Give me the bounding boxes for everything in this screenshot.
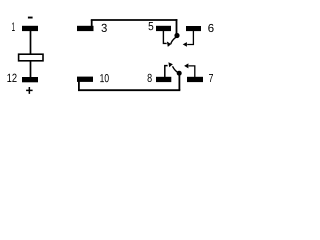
armature curve pole2 bbox=[173, 66, 180, 73]
pin 7 contact stub bbox=[189, 66, 195, 77]
wire bottom corner riser bbox=[178, 73, 180, 90]
node top common junction bbox=[174, 33, 179, 38]
wire pin 10 drop bbox=[78, 82, 80, 91]
pin 10 label bbox=[100, 74, 109, 82]
wire coil to pin12 bbox=[30, 61, 32, 77]
armature curve pole1 bbox=[171, 37, 176, 44]
pin 3 label bbox=[102, 24, 107, 32]
pin 1 label bbox=[12, 23, 15, 32]
pin 12 terminal pad bbox=[22, 77, 38, 82]
pin 8 label bbox=[148, 74, 152, 82]
wire top common rail bbox=[91, 19, 178, 21]
pin 8 terminal pad bbox=[156, 77, 171, 82]
wire pin1 to coil bbox=[30, 31, 32, 54]
pin 5 terminal pad bbox=[156, 26, 171, 31]
contact arrow pole2 NC bbox=[168, 62, 173, 67]
pin 12 label bbox=[7, 74, 16, 82]
pin 7 terminal pad bbox=[187, 77, 203, 82]
pin 6 terminal pad bbox=[186, 26, 201, 31]
coil polarity minus bbox=[28, 17, 33, 19]
pin 8 contact stub bbox=[165, 66, 168, 77]
pin 5 contact stub bbox=[163, 31, 166, 43]
contact arrow pole1 NC bbox=[167, 42, 171, 47]
node bottom common junction bbox=[177, 71, 182, 76]
pin 5 label bbox=[149, 22, 154, 30]
contact arrow pole1 NO bbox=[183, 42, 187, 47]
pin 7 label bbox=[209, 74, 213, 82]
pin 6 contact stub bbox=[187, 31, 193, 45]
wire top corner drop bbox=[176, 19, 178, 35]
coil L1 bbox=[19, 54, 43, 61]
wire pin 3 riser bbox=[91, 20, 93, 27]
pin 6 label bbox=[208, 24, 213, 32]
contact arrow pole2 NO bbox=[184, 63, 188, 68]
pin 3 terminal pad bbox=[77, 26, 94, 31]
pin 10 terminal pad bbox=[77, 77, 93, 82]
wire bottom common rail bbox=[78, 89, 180, 91]
coil polarity plus bbox=[26, 87, 32, 94]
pin 1 terminal pad bbox=[22, 26, 38, 31]
